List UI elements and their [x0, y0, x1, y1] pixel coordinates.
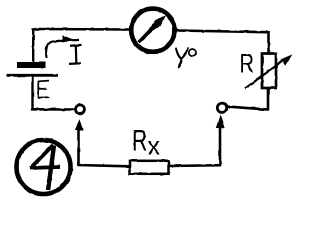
label Rx — [132, 125, 160, 161]
probe arrow left — [75, 119, 83, 166]
label gamma-degree (galvanometer) — [176, 48, 196, 67]
wire bottom right segment — [169, 164, 222, 167]
right terminal node — [217, 103, 226, 112]
label I — [69, 45, 82, 64]
label R — [240, 49, 255, 79]
resistor R (variable) body — [262, 54, 276, 89]
svg-text:x: x — [148, 131, 161, 161]
wire top-left segment — [33, 28, 130, 31]
wire top-right segment — [176, 31, 268, 33]
arrow through R (variable symbol) — [245, 54, 292, 88]
galvanometer U1 body — [131, 9, 174, 52]
probe arrow right — [216, 115, 225, 167]
current arrow I — [46, 35, 79, 58]
figure number 4 badge circle — [17, 140, 71, 194]
wire battery to left terminal (vertical) — [31, 76, 33, 110]
wire bottom left segment — [77, 165, 130, 166]
svg-text:R: R — [240, 49, 255, 79]
svg-text:R: R — [132, 125, 148, 158]
wire corner to right terminal — [228, 107, 269, 110]
left terminal node — [76, 105, 85, 114]
wire right vertical (to resistor R) — [267, 31, 270, 54]
galvanometer needle — [138, 16, 164, 42]
battery E plate (thin long) — [7, 74, 59, 77]
resistor Rx body — [130, 161, 169, 174]
label E — [38, 81, 50, 98]
wire left vertical (to battery) — [32, 28, 34, 63]
wire battery to left terminal (horizontal) — [31, 108, 75, 111]
wire resistor R to corner (vertical) — [267, 87, 270, 111]
figure number 4 glyph — [30, 145, 61, 190]
battery E plate (thick short) — [17, 62, 46, 68]
